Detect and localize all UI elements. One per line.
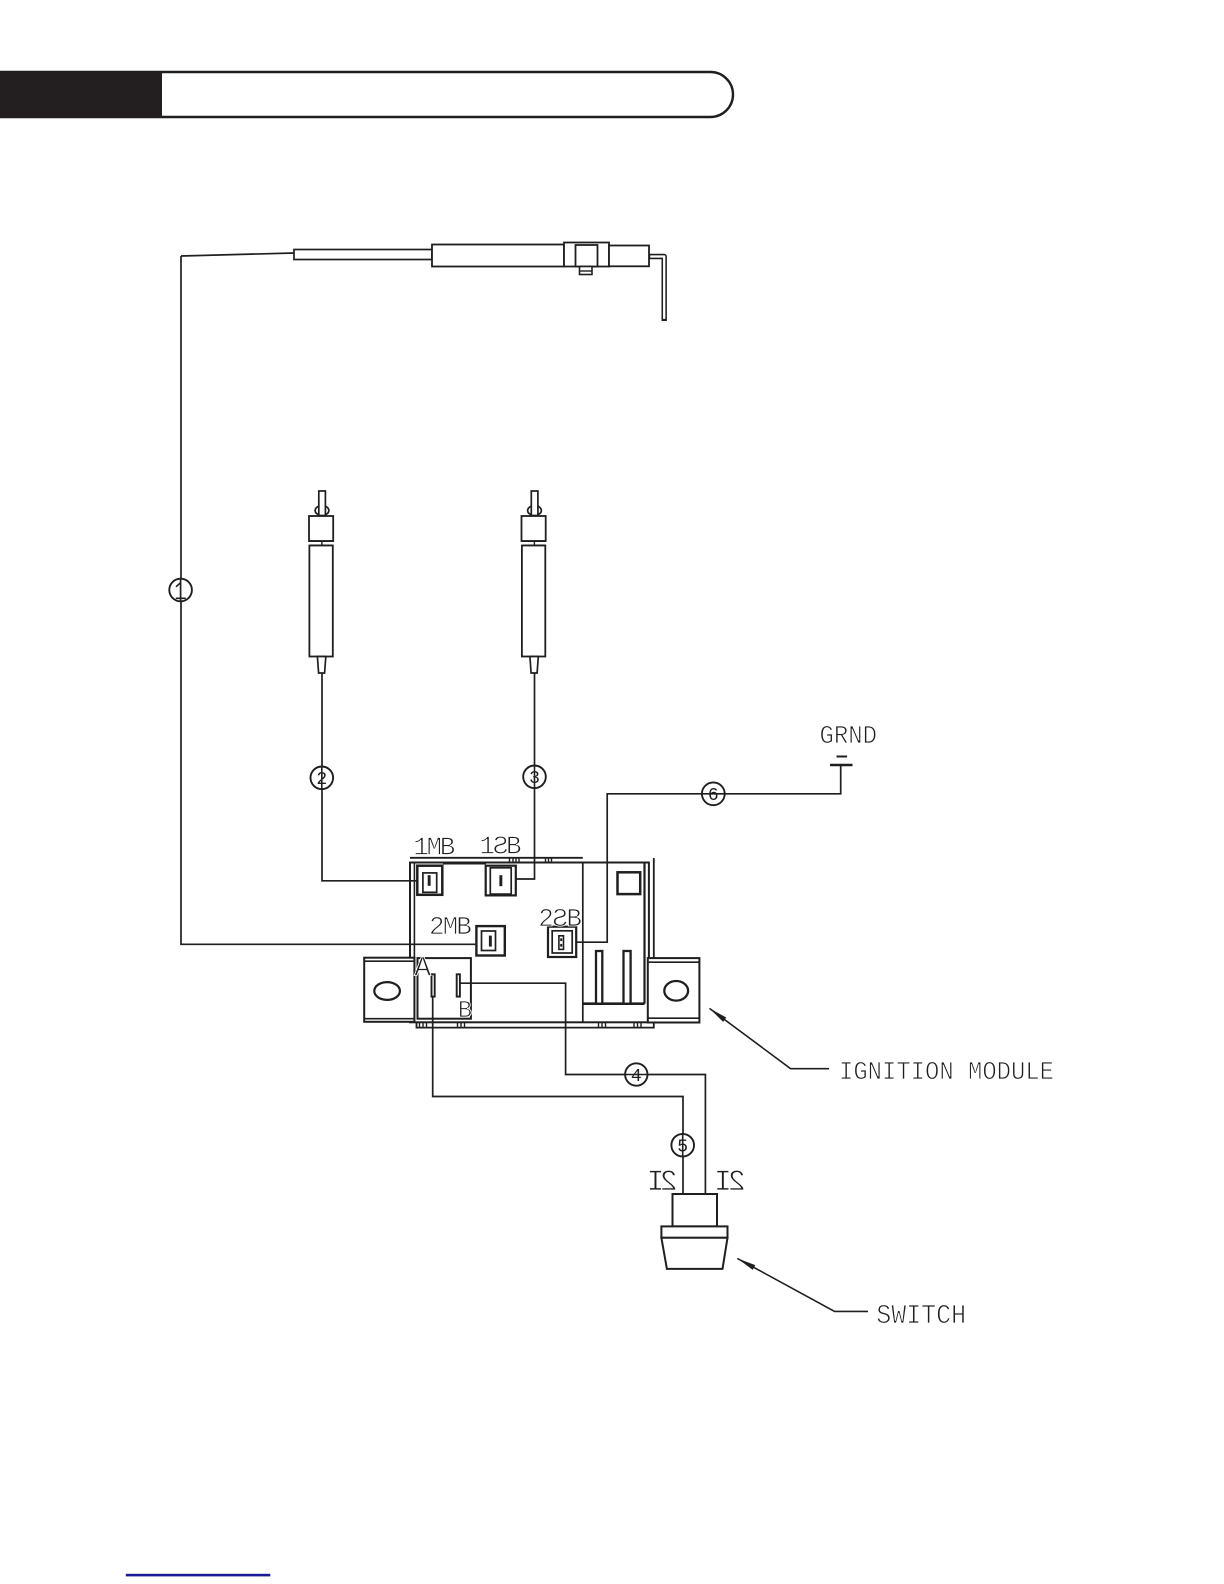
node 4 circled [625, 1063, 647, 1087]
header pill outline [0, 72, 733, 117]
ignition module inner divider [582, 863, 584, 1023]
wire 1 (left loop from sensor to 2MB) [181, 256, 489, 944]
svg-text:3: 3 [529, 769, 540, 789]
node 2 circled [311, 767, 334, 791]
wire 5 (pin A to switch) [433, 997, 683, 1194]
wire 6 (2SB to ground) [564, 765, 841, 942]
electrode 1 loop [315, 506, 329, 516]
flame sensor large tube [432, 245, 564, 267]
electrode 1 body [309, 546, 332, 657]
svg-text:2: 2 [316, 770, 327, 790]
ignition module top-right square [618, 872, 641, 894]
terminal 2MB [476, 926, 504, 955]
ignition module slot 1 [596, 951, 602, 1004]
ground symbol [830, 757, 853, 766]
leader arrow to ignition module [710, 1008, 830, 1068]
ignition module outer right/bottom offset edge [417, 858, 654, 1028]
ignition module slot 2 [624, 951, 631, 1004]
svg-text:5: 5 [677, 1138, 688, 1158]
left mounting tab [364, 958, 414, 1022]
wire 4 (pin B to switch) [460, 983, 706, 1194]
electrode 1 top pin [319, 491, 326, 516]
electrode 2 body [522, 546, 545, 657]
ignition module left inner edge [413, 863, 415, 1023]
header black banner [0, 71, 162, 118]
pin B [457, 974, 460, 996]
switch flange [661, 1226, 727, 1237]
flame sensor hook electrode [649, 257, 664, 322]
switch top block [673, 1194, 718, 1226]
flame sensor clamp inner [576, 245, 598, 267]
right tab oval hole [664, 981, 688, 1001]
label 1SB (S mirrored) [479, 832, 521, 862]
svg-text:B: B [458, 998, 472, 1025]
svg-text:2: 2 [660, 1166, 678, 1200]
ignition module main box [410, 863, 649, 1023]
flame sensor lead wire [181, 253, 294, 256]
flame sensor clamp tab [580, 267, 593, 275]
svg-text:B: B [456, 912, 472, 942]
switch label left (mirrored 21) [646, 1166, 677, 1200]
flame sensor right tube [609, 246, 649, 267]
label 1MB [413, 833, 455, 863]
electrode 1 joint band [309, 541, 333, 546]
svg-text:A: A [414, 954, 431, 985]
left tab oval hole [374, 982, 400, 1000]
svg-text:GRND: GRND [820, 721, 878, 751]
flame sensor thin tube [294, 250, 432, 260]
node 6 circled [702, 782, 725, 806]
electrode 1 upper block [309, 516, 333, 541]
connector block A/B [418, 958, 471, 1019]
svg-text:B: B [506, 832, 522, 862]
leader arrow to switch [737, 1258, 868, 1311]
svg-text:SWITCH: SWITCH [876, 1302, 966, 1332]
node 3 circled [523, 766, 546, 790]
svg-text:2: 2 [728, 1166, 746, 1200]
ignition module rim ticks [510, 858, 552, 863]
wire 2 (electrode 1 to 1MB) [322, 673, 428, 881]
pin A [432, 974, 435, 996]
electrode 2 joint band [522, 541, 546, 546]
terminal 1SB [486, 866, 516, 896]
svg-text:6: 6 [708, 786, 719, 806]
electrode 2 top pin [531, 491, 538, 516]
ignition module bottom ticks [420, 1022, 642, 1027]
flame sensor clamp outer [564, 243, 609, 267]
svg-text:2: 2 [538, 904, 554, 934]
electrode 2 bottom pin [530, 657, 538, 674]
label 2SB (S mirrored) [538, 904, 582, 934]
footer blue line [126, 1574, 270, 1577]
svg-text:B: B [566, 904, 582, 934]
svg-text:4: 4 [631, 1067, 642, 1087]
ignition module top rim [410, 857, 583, 859]
svg-text:IGNITION MODULE: IGNITION MODULE [839, 1057, 1054, 1087]
right mounting tab [648, 958, 700, 1022]
node 1 circled [169, 579, 192, 602]
electrode 2 upper block [522, 516, 546, 541]
switch label right (mirrored 21) [714, 1166, 746, 1200]
electrode 2 loop [528, 506, 542, 516]
terminal 2SB [548, 927, 576, 957]
switch body trapezoid [661, 1238, 727, 1269]
ignition module top edge thick segment [443, 862, 486, 865]
ignition module slot box [583, 863, 645, 1004]
node 5 circled [671, 1134, 694, 1158]
svg-text:1: 1 [479, 832, 495, 862]
wire 3 (electrode 2 to 1SB) [502, 673, 535, 879]
svg-text:B: B [440, 833, 456, 863]
label 2MB [429, 912, 472, 942]
electrode 1 bottom pin [317, 657, 325, 674]
terminal 1MB [417, 866, 442, 895]
